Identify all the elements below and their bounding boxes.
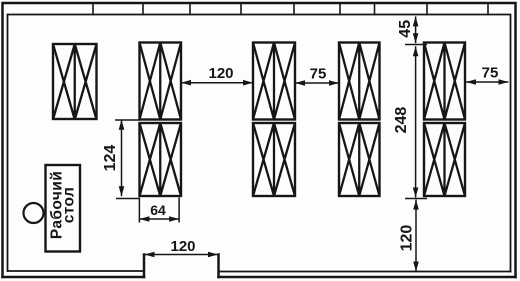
svg-text:248: 248 bbox=[393, 107, 410, 134]
svg-text:45: 45 bbox=[397, 20, 414, 38]
svg-text:120: 120 bbox=[208, 65, 233, 82]
svg-text:75: 75 bbox=[482, 65, 499, 82]
svg-text:75: 75 bbox=[310, 66, 327, 83]
svg-text:120: 120 bbox=[170, 238, 195, 255]
svg-text:120: 120 bbox=[399, 225, 416, 252]
svg-text:124: 124 bbox=[102, 145, 119, 172]
svg-text:стол: стол bbox=[61, 187, 78, 224]
svg-text:64: 64 bbox=[150, 202, 166, 218]
